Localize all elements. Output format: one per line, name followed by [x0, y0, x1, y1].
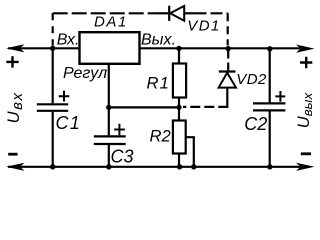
- svg-text:Вых.: Вых.: [141, 32, 176, 49]
- svg-text:VD1: VD1: [187, 17, 220, 34]
- svg-text:DA1: DA1: [94, 14, 128, 31]
- svg-text:R2: R2: [150, 127, 171, 146]
- svg-text:C2: C2: [244, 114, 267, 134]
- svg-text:C3: C3: [111, 146, 134, 166]
- svg-text:Uвх: Uвх: [5, 91, 26, 123]
- svg-text:C1: C1: [56, 113, 81, 133]
- svg-text:R1: R1: [147, 74, 171, 93]
- svg-text:Вх.: Вх.: [57, 32, 80, 49]
- svg-text:Регул.: Регул.: [63, 65, 112, 82]
- svg-text:VD2: VD2: [236, 71, 267, 88]
